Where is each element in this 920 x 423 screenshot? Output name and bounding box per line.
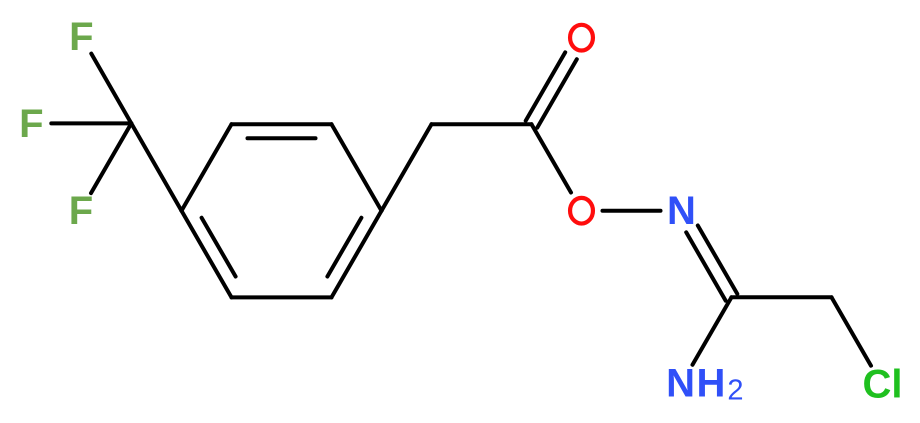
svg-text:N: N [667,189,696,233]
svg-text:F: F [19,102,43,146]
ring bond TR-I [332,124,382,211]
ring bond P-TL [182,124,232,211]
ring double bond TL-TR (top) [232,122,332,126]
svg-text:F: F [69,15,93,59]
svg-text:Cl: Cl [863,363,903,407]
double bond C7=O1 (carbonyl) [537,59,577,127]
bond O2-N1 [603,209,661,213]
svg-text:F: F [69,189,93,233]
bond C9-C10 [732,295,832,299]
bond C8-F (to middle F) [51,121,131,125]
ring bond BR-BL (bottom) [232,295,332,299]
bond C7-O2 (ester) [532,124,572,192]
svg-text:NH2: NH2 [666,362,743,407]
bond C8-F (to top F) [91,54,131,124]
bond C9-NH2 [693,297,732,365]
bond ring-CH2 [382,124,432,211]
bond C8-ring (CF3 to para carbon) [131,123,181,210]
ring double bond BL-P [182,211,232,298]
bond C8-F (to bottom F) [91,123,131,193]
atom label O (ester, drawn as ring glyph) [570,198,593,224]
bond CH2-C7 [432,122,532,126]
ring double bond I-BR [332,211,382,298]
double bond N1=C9 [686,232,726,300]
atom label O (carbonyl, drawn as ring glyph) [570,25,593,51]
bond C10-Cl [832,297,872,365]
